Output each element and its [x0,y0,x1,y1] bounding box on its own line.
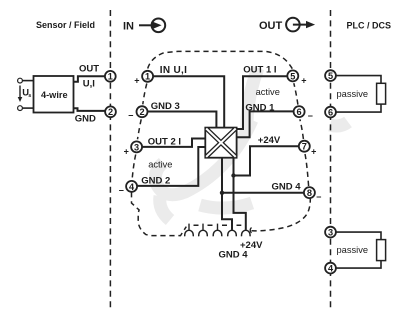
svg-text:GND 1: GND 1 [245,102,275,113]
svg-text:8: 8 [307,188,312,198]
wire +24V terminal 7 to junction [234,146,299,175]
wire GND bus from isolator to socket 4 [222,158,232,230]
module terminal 8 [304,187,315,198]
svg-text:3: 3 [134,142,139,152]
svg-text:OUT: OUT [79,64,99,75]
svg-text:OUT 2 I: OUT 2 I [148,137,181,148]
svg-text:GND 3: GND 3 [151,101,180,112]
svg-text:5: 5 [290,71,295,81]
wire OUT 2 I terminal 3 to isolator [142,139,205,147]
module terminal 1 [142,71,153,82]
module terminal 3 [131,141,142,152]
module outline (dashed) [132,51,311,235]
bus socket 5 [241,230,250,236]
PLC terminal 4 [325,263,336,274]
wire OUT 1 I terminal 5 to isolator [237,76,288,129]
svg-text:+: + [134,75,139,85]
svg-text:OUT 1 I: OUT 1 I [243,64,276,75]
PLC terminal 3 [325,227,336,238]
svg-text:2: 2 [139,107,144,117]
svg-text:6: 6 [328,108,333,118]
svg-text:+: + [124,146,129,156]
svg-text:4: 4 [129,182,135,192]
bus socket 4 [228,230,237,236]
svg-text:−: − [308,111,313,121]
wire GND 3 terminal 2 to isolator [148,112,217,128]
supply voltage Us arrow [18,86,23,103]
module terminal 4 [126,181,137,192]
outline hook after socket 5 [250,228,251,234]
wire IN U,I terminal 1 to isolator [153,76,224,127]
4-wire transmitter box [34,76,74,113]
svg-text:IN U,I: IN U,I [160,65,187,76]
svg-text:s: s [28,93,31,99]
svg-text:U,I: U,I [83,78,95,89]
svg-text:active: active [148,160,172,170]
wire PLC load bottom [336,232,381,268]
wire PLC load top [336,76,381,113]
PLC/DCS boundary line [330,10,332,310]
boundary terminal 1 [105,71,116,82]
svg-text:active: active [256,87,280,97]
svg-text:IN: IN [123,20,134,32]
sensor/field boundary line [109,10,111,310]
module terminal 5 [287,70,298,81]
svg-text:PLC / DCS: PLC / DCS [347,20,392,30]
wire GND 1 terminal 6 to isolator [237,111,294,137]
sensor terminal circle bottom [18,106,23,111]
svg-text:−: − [119,185,124,195]
wire GND from box to boundary terminal 2 [74,108,106,111]
svg-text:1: 1 [145,72,150,82]
wire GND 2 terminal 4 to isolator [137,147,205,186]
wire +24V bus from isolator to socket 5 [234,158,246,230]
svg-text:+: + [301,76,306,86]
PLC terminal 5 [325,70,336,81]
IN flow symbol [139,19,165,33]
svg-text:passive: passive [337,89,369,99]
svg-text:2: 2 [108,107,113,117]
svg-text:4-wire: 4-wire [41,90,68,100]
sensor terminal circle top [18,78,23,83]
svg-text:7: 7 [302,142,307,152]
module terminal 6 [294,106,305,117]
module terminal 2 [137,106,148,117]
svg-text:5: 5 [328,71,333,81]
junction GND4 [220,191,224,195]
svg-text:−: − [316,192,321,202]
svg-text:+24V: +24V [258,135,281,146]
wire OUT U,I from box to boundary terminal 1 [74,76,106,81]
load resistor top (passive) [377,83,386,104]
svg-text:GND 4: GND 4 [272,181,302,192]
svg-text:GND 4: GND 4 [219,249,249,260]
svg-text:OUT: OUT [259,20,283,32]
boundary terminal 2 [105,106,116,117]
svg-text:GND 2: GND 2 [141,176,170,187]
svg-text:4: 4 [328,264,334,274]
svg-text:−: − [128,110,133,120]
svg-text:6: 6 [297,107,302,117]
bus socket 2 [199,224,208,237]
svg-text:Sensor / Field: Sensor / Field [36,20,95,30]
PLC terminal 6 [325,107,336,118]
module terminal 7 [299,141,310,152]
svg-text:1: 1 [108,72,113,82]
wire sensor bottom to box [22,107,33,109]
wire sensor top to box [22,80,33,82]
OUT flow symbol [286,18,315,32]
svg-text:3: 3 [328,228,333,238]
junction +24V [231,173,235,177]
bus socket 3 [213,224,222,237]
svg-text:passive: passive [337,245,369,255]
load resistor bottom (passive) [377,240,386,261]
bus socket 1 [185,224,194,237]
isolation amplifier symbol U1 [205,128,236,158]
watermark (decorative) [155,68,348,220]
svg-text:+: + [311,146,316,156]
svg-text:GND: GND [75,113,96,124]
wire GND 4 terminal 8 to junction [222,192,304,194]
